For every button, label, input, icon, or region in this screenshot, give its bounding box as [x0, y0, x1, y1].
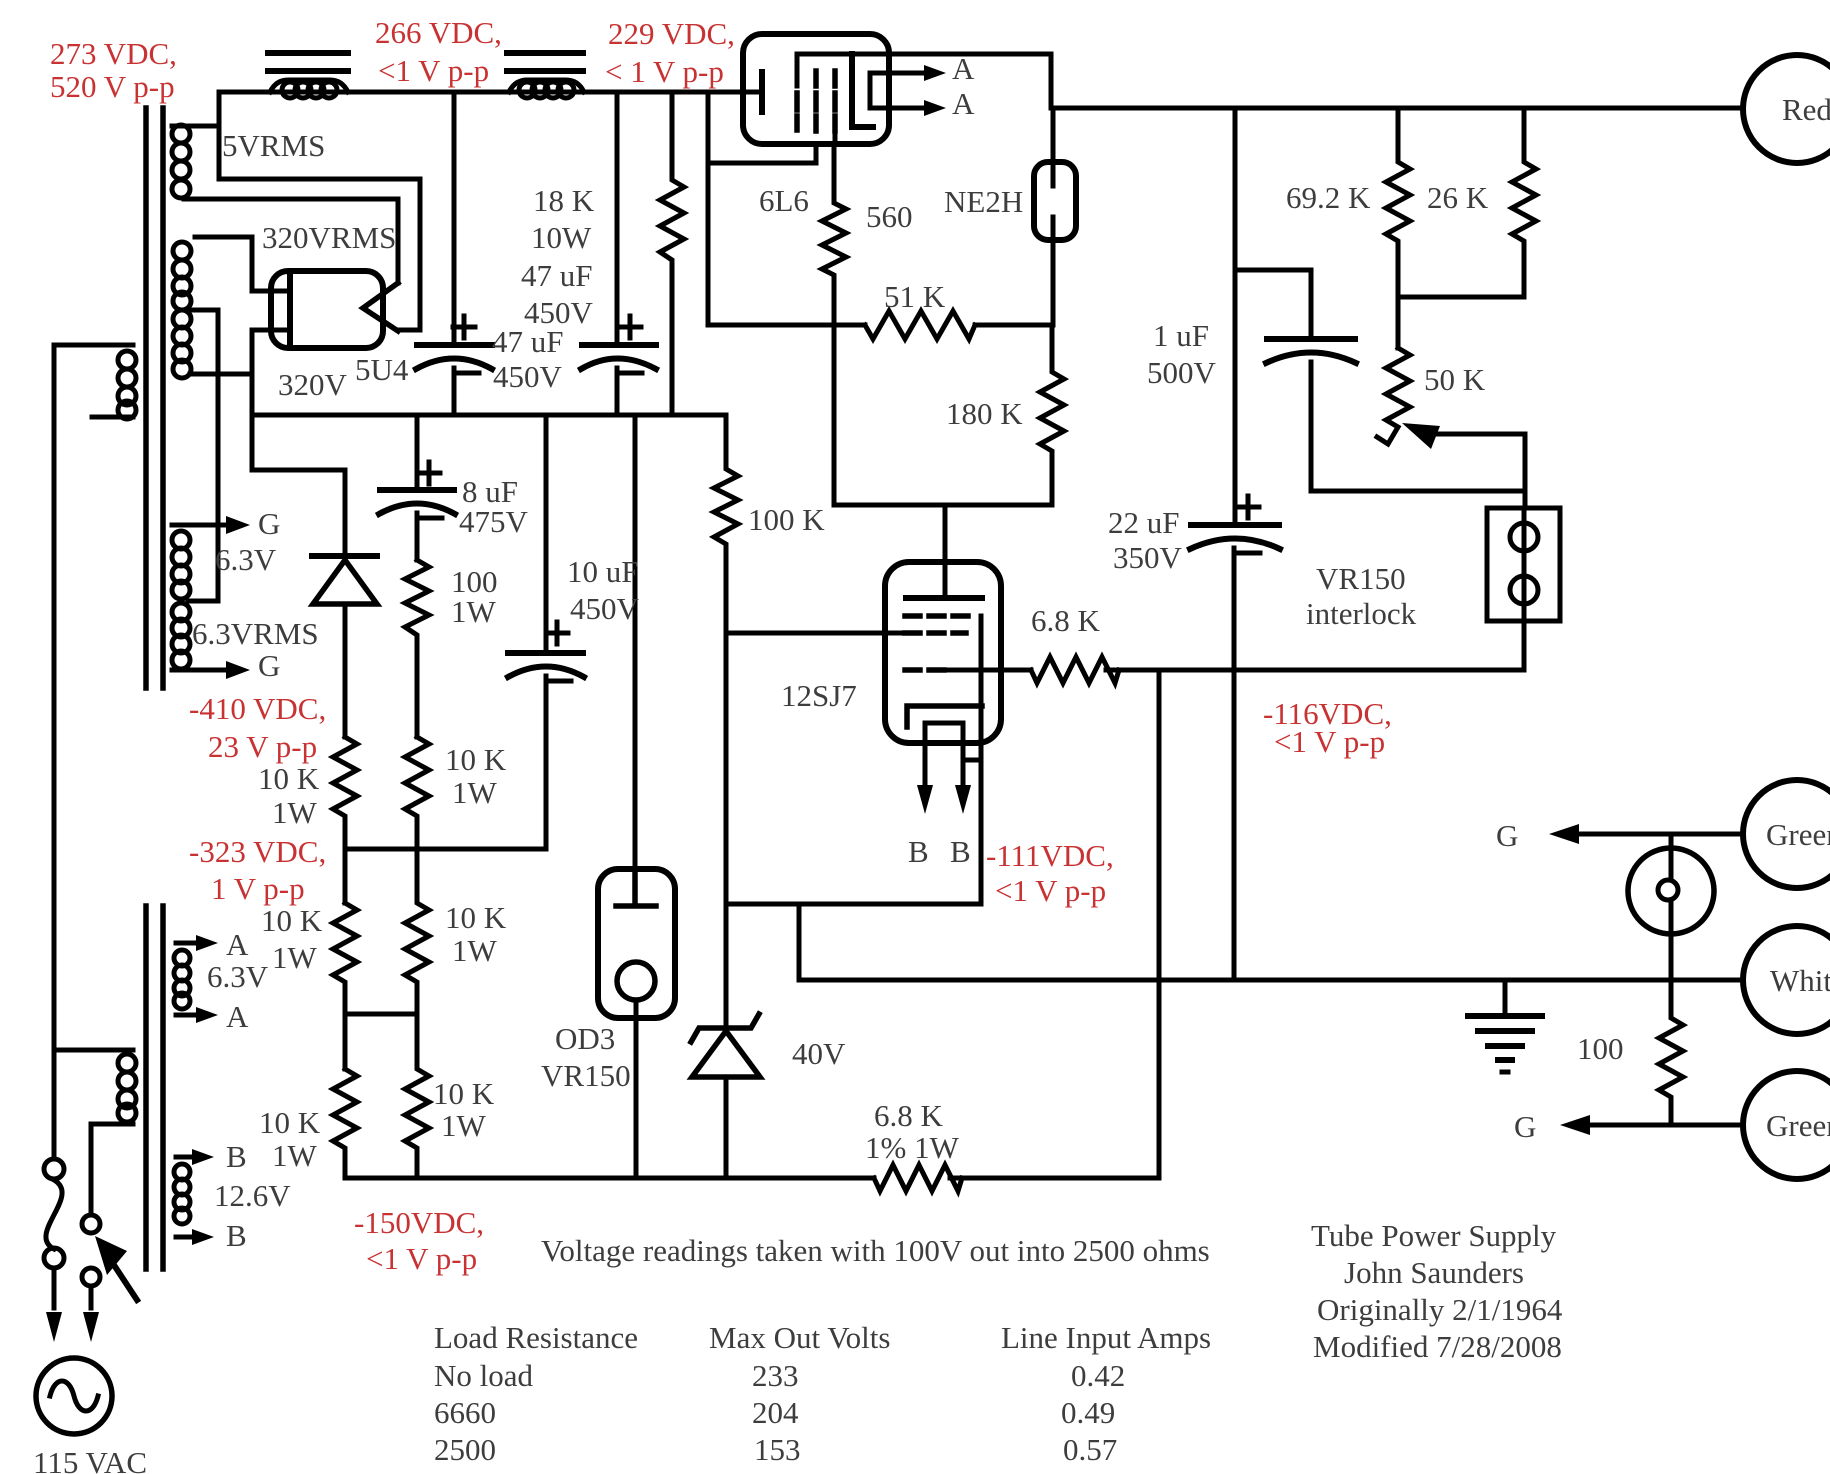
arrowhead G upper T1 — [226, 516, 250, 534]
svg-text:6.8 K: 6.8 K — [1031, 603, 1101, 638]
svg-text:B: B — [226, 1218, 247, 1253]
transformer T1 6.3VRMS winding — [172, 603, 190, 621]
svg-text:5U4: 5U4 — [355, 352, 409, 387]
svg-text:A: A — [952, 51, 975, 86]
wire B node — [726, 616, 981, 980]
svg-text:0.57: 0.57 — [1063, 1432, 1117, 1467]
wire -116 link — [1157, 670, 1162, 1178]
tube V2 12SJ7 grid1 — [905, 667, 948, 673]
svg-text:White: White — [1770, 963, 1830, 998]
svg-text:Green: Green — [1766, 817, 1830, 852]
wire top B+ rail — [219, 90, 762, 95]
svg-text:5VRMS: 5VRMS — [222, 128, 325, 163]
arrowhead G right bottom — [1560, 1115, 1590, 1135]
svg-text:Line Input Amps: Line Input Amps — [1001, 1320, 1211, 1355]
resistor R1 18K 10W — [660, 92, 684, 415]
svg-text:Originally 2/1/1964: Originally 2/1/1964 — [1317, 1292, 1563, 1327]
resistor R9 10K 1W — [405, 849, 429, 1014]
svg-text:-323 VDC,: -323 VDC, — [189, 834, 326, 869]
svg-text:0.42: 0.42 — [1071, 1358, 1125, 1393]
svg-text:22 uF: 22 uF — [1108, 505, 1180, 540]
svg-text:204: 204 — [752, 1395, 799, 1430]
transformer T1 5U4 filament arrow — [363, 283, 398, 331]
svg-text:320VRMS: 320VRMS — [262, 220, 396, 255]
wire plate drop to rail — [1049, 54, 1054, 108]
svg-text:-410 VDC,: -410 VDC, — [189, 691, 326, 726]
svg-text:23 V p-p: 23 V p-p — [208, 729, 317, 764]
tube V3 OD3 cathode circle — [617, 962, 655, 1000]
tube V3 OD3 anode — [616, 869, 656, 906]
svg-text:-111VDC,: -111VDC, — [986, 838, 1114, 873]
svg-text:6.3V: 6.3V — [207, 959, 269, 994]
svg-text:John Saunders: John Saunders — [1344, 1255, 1524, 1290]
capacitor C6 1uF lead — [1235, 270, 1311, 491]
tube V2 12SJ7 envelope — [885, 562, 1001, 743]
svg-text:233: 233 — [752, 1358, 799, 1393]
svg-text:6L6: 6L6 — [759, 183, 809, 218]
wire grid lead 12SJ7 — [726, 631, 903, 636]
svg-text:Modified 7/28/2008: Modified 7/28/2008 — [1313, 1329, 1562, 1364]
wire diode branch — [252, 415, 345, 556]
svg-text:350V: 350V — [1113, 540, 1183, 575]
switch S1 — [82, 1215, 100, 1233]
arrowhead switch blade — [95, 1236, 127, 1275]
svg-text:Load Resistance: Load Resistance — [434, 1320, 638, 1355]
svg-text:12.6V: 12.6V — [214, 1178, 291, 1213]
svg-text:320V: 320V — [278, 367, 348, 402]
svg-text:6660: 6660 — [434, 1395, 496, 1430]
lamp NE2H envelope — [1034, 162, 1076, 240]
choke L1 core bars — [268, 53, 348, 71]
svg-text:A: A — [226, 927, 249, 962]
wire grid to 560 — [833, 131, 838, 144]
tube V1 6L6 cathode — [759, 72, 765, 112]
transformer T2 12.6V winding — [176, 1155, 196, 1160]
svg-text:6.8 K: 6.8 K — [874, 1098, 944, 1133]
wire mains right — [89, 1124, 94, 1214]
wire OD3 column — [633, 415, 638, 869]
resistor R5 10K 1W — [333, 903, 357, 1014]
svg-text:1W: 1W — [452, 775, 498, 810]
wire green pilot top — [1560, 832, 1743, 837]
capacitor C3 8uF plates — [380, 487, 454, 493]
svg-text:100 K: 100 K — [748, 502, 825, 537]
resistor R12 6.8K 1% 1W — [874, 1165, 962, 1191]
resistor R10 10K 1W — [405, 1014, 429, 1178]
svg-text:1W: 1W — [452, 933, 498, 968]
tube V1 6L6 grid2 dashes — [813, 71, 819, 131]
arrowhead filament B right — [955, 785, 971, 814]
tube V2 12SJ7 filament — [925, 723, 981, 785]
wire 6L6 cathode loop — [708, 92, 816, 325]
svg-text:1W: 1W — [451, 594, 497, 629]
tube V1 6L6 grid1 dashes — [794, 93, 800, 130]
plus sign C3 — [418, 462, 440, 484]
svg-text:2500: 2500 — [434, 1432, 496, 1467]
svg-text:69.2 K: 69.2 K — [1286, 180, 1371, 215]
svg-text:10 K: 10 K — [258, 761, 320, 796]
tube V2 12SJ7 grid2 — [905, 630, 966, 636]
tube V1 6L6 grid3 dashes — [832, 71, 838, 131]
plus sign C5 — [1237, 496, 1259, 518]
svg-text:450V: 450V — [493, 359, 563, 394]
svg-text:OD3: OD3 — [555, 1021, 615, 1056]
svg-text:Red: Red — [1782, 92, 1830, 127]
svg-text:18 K: 18 K — [533, 183, 595, 218]
terminal Green bottom circle — [1743, 1071, 1830, 1179]
resistor R18 100 — [1659, 980, 1683, 1125]
svg-text:< 1 V p-p: < 1 V p-p — [605, 54, 724, 89]
capacitor C2 47uF lead — [615, 92, 620, 415]
wire crossbar2 — [345, 1014, 417, 1069]
resistor R7 100 1W — [405, 560, 429, 737]
tube V1 6L6 plate — [852, 54, 873, 127]
arrowhead B upper T2 — [192, 1149, 214, 1165]
svg-text:<1 V p-p: <1 V p-p — [378, 53, 489, 88]
svg-text:12SJ7: 12SJ7 — [781, 678, 857, 713]
wire crossbar1 — [345, 849, 545, 903]
arrowhead mains left — [46, 1312, 62, 1342]
svg-text:115 VAC: 115 VAC — [33, 1445, 147, 1474]
svg-text:VR150: VR150 — [541, 1058, 631, 1093]
wire 5U4 filament right side — [184, 179, 420, 330]
svg-text:475V: 475V — [459, 504, 529, 539]
lamp DS1 bulb — [1628, 848, 1714, 934]
arrowhead filament B left — [917, 785, 933, 814]
svg-text:266 VDC,: 266 VDC, — [375, 15, 502, 50]
arrowhead G right top — [1549, 824, 1579, 844]
wire screen node to 180K — [834, 503, 1052, 508]
svg-text:-150VDC,: -150VDC, — [354, 1205, 484, 1240]
svg-text:<1 V p-p: <1 V p-p — [1274, 724, 1385, 759]
capacitor C4 10uF 450V lead — [544, 415, 549, 849]
svg-text:B: B — [908, 834, 929, 869]
svg-text:Green: Green — [1766, 1108, 1830, 1143]
svg-text:G: G — [258, 648, 280, 683]
svg-text:No load: No load — [434, 1358, 534, 1393]
svg-text:0.49: 0.49 — [1061, 1395, 1115, 1430]
capacitor C3 8uF 475V lead — [415, 415, 420, 560]
svg-text:B: B — [950, 834, 971, 869]
transformer T2 core — [146, 906, 163, 1269]
resistor R4 10K 1W — [333, 737, 357, 849]
svg-text:Voltage readings taken with 10: Voltage readings taken with 100V out int… — [541, 1233, 1210, 1268]
capacitor C6 1uF plates — [1267, 336, 1355, 342]
svg-text:6.3V: 6.3V — [215, 542, 277, 577]
wire bottom negative rail — [345, 1176, 1159, 1181]
svg-text:40V: 40V — [792, 1036, 846, 1071]
source V 115VAC — [36, 1358, 112, 1434]
tube V3 OD3 envelope — [598, 869, 675, 1018]
resistor R15 69.2K — [1386, 108, 1410, 348]
svg-text:6.3VRMS: 6.3VRMS — [192, 616, 319, 651]
svg-text:229 VDC,: 229 VDC, — [608, 16, 735, 51]
svg-text:<1 V p-p: <1 V p-p — [366, 1241, 477, 1276]
svg-text:1W: 1W — [272, 1138, 318, 1173]
svg-text:Max Out Volts: Max Out Volts — [709, 1320, 890, 1355]
svg-text:10 K: 10 K — [261, 903, 323, 938]
resistor R3 560 — [822, 144, 846, 505]
capacitor C1 47uF plates — [417, 342, 492, 348]
svg-text:G: G — [1514, 1109, 1536, 1144]
arrowhead A lower — [924, 100, 946, 116]
svg-text:10W: 10W — [531, 220, 592, 255]
svg-text:153: 153 — [754, 1432, 801, 1467]
diode D1 6.3V rectifier — [312, 553, 377, 559]
capacitor C2 47uF plates — [582, 342, 656, 348]
svg-text:1W: 1W — [272, 795, 318, 830]
wire 5VRMS top lead to rail — [172, 92, 219, 179]
capacitor C4 10uF plates — [508, 650, 583, 656]
arrowhead B lower T2 — [192, 1229, 214, 1245]
capacitor C5 22uF plates — [1191, 522, 1279, 528]
plus sign C2 — [619, 316, 641, 338]
svg-text:A: A — [226, 999, 249, 1034]
wire grid1 out to 6.8K — [948, 668, 1031, 673]
resistor R16 26K — [1512, 108, 1536, 297]
svg-text:1 uF: 1 uF — [1153, 318, 1209, 353]
svg-text:500V: 500V — [1147, 355, 1217, 390]
svg-text:10 uF: 10 uF — [567, 554, 639, 589]
transformer T1 primary coil — [54, 343, 133, 348]
capacitor C5 22uF lead — [1234, 108, 1235, 979]
connector J1 interlock pins — [1522, 508, 1527, 670]
arrowhead A upper T2 — [196, 935, 218, 951]
svg-text:B: B — [226, 1139, 247, 1174]
tube V2 12SJ7 grid3 — [905, 613, 976, 619]
svg-text:180 K: 180 K — [946, 396, 1023, 431]
svg-text:G: G — [1496, 818, 1518, 853]
svg-text:VR150: VR150 — [1316, 561, 1406, 596]
connector J1 interlock box — [1487, 508, 1560, 621]
transformer T1 core — [146, 108, 163, 688]
svg-text:interlock: interlock — [1306, 596, 1417, 631]
tube 5U4 envelope — [271, 271, 383, 348]
transformer T1 320VRMS winding upper — [195, 235, 252, 240]
tube V2 12SJ7 cathode — [907, 706, 982, 727]
svg-text:450V: 450V — [570, 591, 640, 626]
svg-text:520 V p-p: 520 V p-p — [50, 69, 175, 104]
resistor R11 100K — [714, 415, 738, 904]
resistor R8 10K 1W — [405, 737, 429, 849]
tube V1 6L6 envelope — [743, 34, 889, 144]
wire 320V bus — [252, 413, 726, 418]
svg-text:A: A — [952, 86, 975, 121]
svg-text:10 K: 10 K — [445, 742, 507, 777]
capacitor C1 47uF lead — [452, 92, 457, 415]
svg-text:26 K: 26 K — [1427, 180, 1489, 215]
svg-text:1W: 1W — [441, 1108, 487, 1143]
svg-text:NE2H: NE2H — [944, 184, 1023, 219]
svg-text:47 uF: 47 uF — [521, 258, 593, 293]
wire OD3 bottom lead — [634, 1000, 639, 1178]
fuse F1 — [44, 1159, 64, 1179]
transformer T1 HV center tap — [188, 310, 218, 601]
tube V1 6L6 screen top lead — [797, 54, 1051, 86]
plus sign C1 — [453, 316, 475, 338]
svg-text:10 K: 10 K — [433, 1076, 495, 1111]
potentiometer R17 50K — [1377, 348, 1410, 444]
svg-text:1 V p-p: 1 V p-p — [211, 871, 305, 906]
plus sign C4 — [546, 622, 568, 644]
svg-text:<1 V p-p: <1 V p-p — [995, 873, 1106, 908]
wire 26K link — [1398, 295, 1524, 300]
transformer T1 5VRMS winding — [172, 125, 190, 143]
resistor R14 6.8K — [1031, 657, 1119, 683]
choke L2 coil — [509, 80, 584, 92]
transformer T1 320VRMS winding lower — [173, 310, 191, 328]
resistor R6 10K 1W — [333, 1069, 357, 1178]
svg-text:51 K: 51 K — [884, 279, 946, 314]
tube V2 12SJ7 plate — [906, 595, 982, 601]
wire 12SJ7 plate lead — [943, 505, 948, 598]
ground symbol — [1503, 980, 1508, 1016]
svg-text:10 K: 10 K — [445, 900, 507, 935]
svg-text:100: 100 — [1577, 1031, 1624, 1066]
wire HV output rail — [1051, 106, 1743, 111]
arrowhead A upper — [924, 65, 946, 81]
diode D2 zener 40V — [691, 1014, 759, 1042]
svg-text:1W: 1W — [272, 940, 318, 975]
svg-text:G: G — [258, 506, 280, 541]
choke L2 core bars — [507, 53, 583, 71]
wire green bottom — [1572, 1123, 1743, 1128]
terminal Green top circle — [1743, 780, 1830, 888]
arrowhead G lower T1 — [226, 661, 250, 679]
wire 5U4 plate leads — [252, 237, 287, 415]
tube 5U4 plates — [287, 272, 293, 346]
arrowhead wiper — [1402, 423, 1440, 449]
svg-text:560: 560 — [866, 199, 913, 234]
svg-text:47 uF: 47 uF — [492, 324, 564, 359]
svg-text:50 K: 50 K — [1424, 362, 1486, 397]
lamp NE2H leads — [1051, 108, 1056, 325]
tube V1 6L6 filament bracket — [870, 73, 890, 108]
terminal White circle — [1743, 926, 1830, 1034]
svg-text:273 VDC,: 273 VDC, — [50, 36, 177, 71]
wire 1uF to interlock — [1311, 489, 1524, 494]
wire filament A leads — [890, 73, 930, 108]
arrowhead A lower T2 — [196, 1007, 218, 1023]
wire mains left — [52, 345, 57, 1159]
resistor R13 180K — [1040, 325, 1064, 505]
wire wiper — [1434, 434, 1525, 508]
wire white common — [799, 978, 1743, 983]
arrowhead mains right — [83, 1312, 99, 1342]
wire 51K node — [708, 323, 1052, 328]
transformer T2 primary coil — [54, 1048, 133, 1053]
wire -116 node — [1106, 668, 1524, 673]
transformer T2 6.3V winding — [176, 941, 200, 946]
svg-text:Tube Power Supply: Tube Power Supply — [1311, 1218, 1557, 1253]
svg-text:10 K: 10 K — [259, 1105, 321, 1140]
terminal Red circle — [1743, 55, 1830, 163]
choke L1 coil — [270, 80, 348, 92]
svg-text:1% 1W: 1% 1W — [865, 1130, 960, 1165]
transformer T1 6.3V winding — [172, 523, 225, 528]
wire zener column — [724, 904, 729, 1028]
resistor R2 51K — [865, 311, 975, 339]
